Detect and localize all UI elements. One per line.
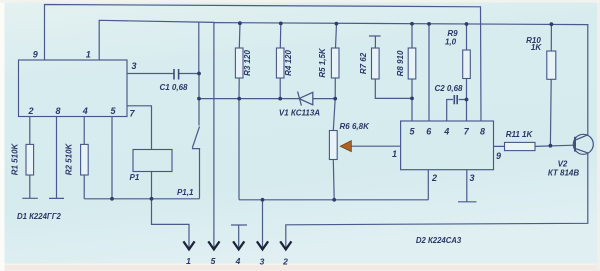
svg-text:2: 2 [27,106,33,116]
svg-text:P1,1: P1,1 [177,188,194,197]
svg-text:5: 5 [211,256,216,266]
svg-text:1: 1 [86,50,91,60]
svg-text:3: 3 [260,257,265,267]
svg-text:2: 2 [431,173,437,183]
svg-text:D1 К224ГГ2: D1 К224ГГ2 [17,212,62,221]
svg-text:R8 910: R8 910 [396,50,405,76]
svg-text:9: 9 [496,151,501,161]
svg-text:4: 4 [82,106,88,116]
svg-text:8: 8 [480,127,485,137]
svg-text:1: 1 [392,149,397,159]
svg-text:2: 2 [282,257,288,267]
svg-text:R3 120: R3 120 [243,50,252,76]
svg-text:4: 4 [443,127,449,137]
svg-text:R11 1K: R11 1K [506,130,534,139]
svg-text:8: 8 [55,106,60,116]
svg-text:КТ 814В: КТ 814В [548,169,579,178]
svg-text:R7 62: R7 62 [359,52,368,74]
svg-text:4: 4 [235,256,241,266]
svg-text:1,0: 1,0 [445,38,457,47]
svg-text:R5 1,5K: R5 1,5K [318,47,327,78]
svg-text:C2 0,68: C2 0,68 [434,84,463,93]
svg-text:R6 6,8K: R6 6,8K [340,122,371,131]
svg-text:3: 3 [131,61,136,71]
svg-text:R1 510K: R1 510K [11,142,20,175]
svg-text:C1 0,68: C1 0,68 [159,83,188,92]
svg-text:9: 9 [33,50,38,60]
svg-text:R2 510K: R2 510K [65,142,74,175]
svg-text:V2: V2 [558,160,568,169]
svg-text:1K: 1K [531,43,542,52]
svg-text:1: 1 [186,256,191,266]
svg-text:P1: P1 [130,173,140,182]
svg-text:R4 120: R4 120 [284,50,293,76]
svg-text:3: 3 [469,173,474,183]
svg-text:V1 КС113А: V1 КС113А [279,109,320,118]
svg-text:D2 К224СА3: D2 К224СА3 [416,236,462,245]
